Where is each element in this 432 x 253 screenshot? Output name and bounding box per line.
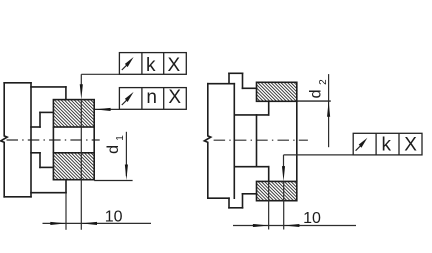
dimension line 10 (left figure) <box>43 222 152 224</box>
centerline left <box>7 139 100 141</box>
lower tab (right figure) <box>229 194 257 208</box>
box n X (second left) <box>119 88 186 110</box>
centerline right <box>214 139 308 141</box>
leader arrowhead down at ring lower section <box>282 166 285 181</box>
svg-text:10: 10 <box>303 210 321 227</box>
icon brush-arrow in right box <box>356 138 368 151</box>
box k X (right) <box>353 133 422 155</box>
svg-text:10: 10 <box>105 209 123 226</box>
dimension arrow right-pointing <box>50 222 66 225</box>
flange (right figure) with break zigzag <box>204 84 234 199</box>
svg-text:1: 1 <box>115 135 126 141</box>
icon brush-arrow in box n X <box>122 92 134 105</box>
shaft bore steps (right figure) <box>234 101 268 181</box>
ring lower section (hatched, right figure) <box>257 181 297 200</box>
hub upper section (hatched, left figure) <box>53 100 94 127</box>
box k X (top left) <box>119 53 186 75</box>
leader from n-X box to hub right face (left figure) <box>95 108 119 110</box>
dimension arrow left-pointing <box>284 224 300 227</box>
extension line through hub (left figure) <box>80 100 82 230</box>
ring upper section (hatched, right figure) <box>257 82 297 101</box>
svg-text:X: X <box>167 55 180 76</box>
svg-text:k: k <box>146 55 156 76</box>
dimension arrow left-pointing <box>81 222 97 225</box>
dimension line 10 (right figure) <box>233 225 356 227</box>
upper tab (right figure) <box>229 73 257 88</box>
hub side faces across bore (left figure) <box>53 127 94 153</box>
svg-text:X: X <box>404 135 417 156</box>
icon brush-arrow in box k X <box>122 57 134 70</box>
svg-text:X: X <box>168 87 181 108</box>
hub lower section (hatched, left figure) <box>53 153 94 180</box>
svg-text:2: 2 <box>318 79 329 85</box>
svg-text:d: d <box>105 145 122 154</box>
shaft steps (left figure) <box>31 112 53 167</box>
svg-text:n: n <box>146 87 157 108</box>
leader arrowhead down at hub top <box>80 84 83 99</box>
d1 dimension line with down arrow (left figure) <box>125 132 127 176</box>
d2 dimension line with up arrow <box>328 74 330 147</box>
leader from k-X box to hub top (left figure) <box>81 74 119 86</box>
collar (left figure) <box>31 87 66 193</box>
dimension arrow right-pointing <box>253 224 269 227</box>
svg-text:k: k <box>382 135 392 156</box>
leader from right k-X box to ring (right figure) <box>284 155 354 168</box>
leader arrowhead left at hub face <box>95 108 111 111</box>
flange (left figure) with break zigzag <box>1 83 31 197</box>
extension lines for 10 (right figure) <box>269 181 284 229</box>
extension line at collar face (left figure) <box>65 193 67 230</box>
ring right face across bore (right figure) <box>296 101 298 181</box>
svg-text:d: d <box>308 89 325 98</box>
d2 reference line (right figure) <box>297 100 331 102</box>
reference line from hub bottom (left figure) <box>94 180 132 182</box>
